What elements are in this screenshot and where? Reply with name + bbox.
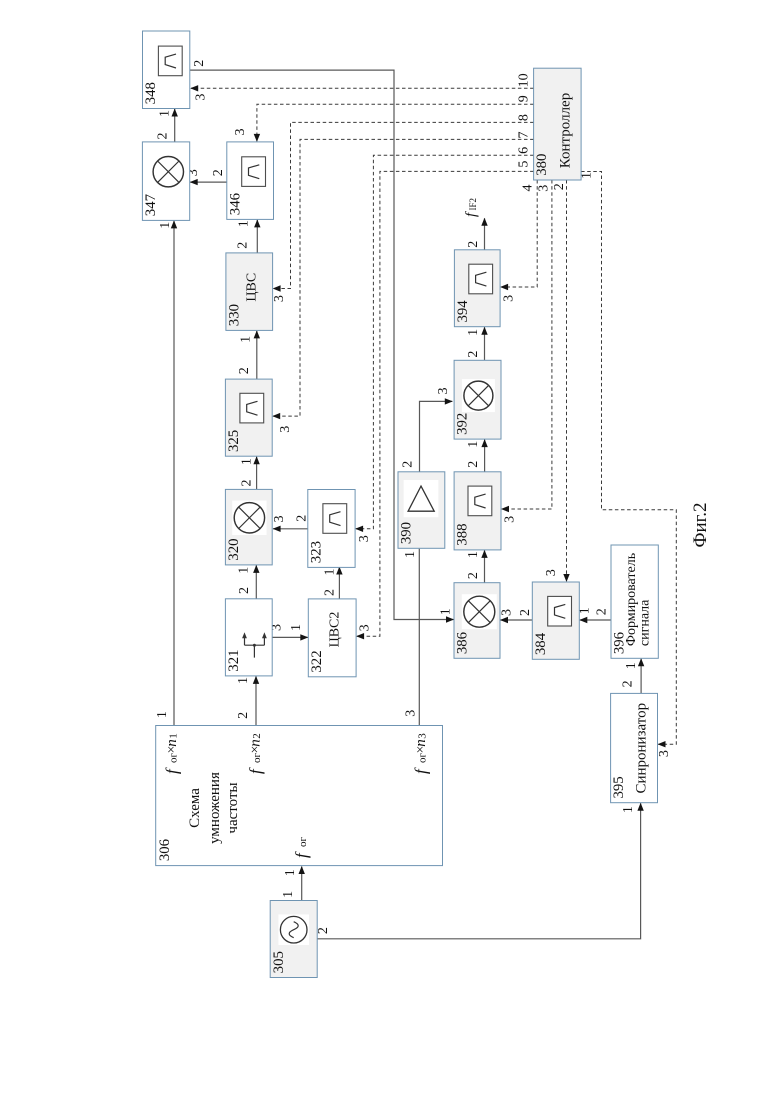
wire 325 pin2 to 330 pin1 <box>254 330 260 379</box>
svg-text:2: 2 <box>235 242 250 249</box>
svg-text:1: 1 <box>580 172 595 179</box>
svg-text:3: 3 <box>436 388 451 395</box>
wire 306 pin1 to 347 pin1 <box>171 220 177 725</box>
wire 306 pin3 to 390 pin1 <box>418 549 420 726</box>
svg-text:2: 2 <box>466 351 481 358</box>
svg-text:1: 1 <box>281 891 296 898</box>
svg-text:2: 2 <box>240 480 255 487</box>
block 348 bandpass filter <box>143 31 190 109</box>
svg-text:3: 3 <box>233 129 248 136</box>
block 320 mixer <box>225 489 272 565</box>
svg-text:2: 2 <box>466 572 481 579</box>
block 388 bandpass filter <box>454 472 501 550</box>
svg-text:2: 2 <box>316 927 331 934</box>
wire 320 pin2 to 325 pin1 <box>253 456 259 489</box>
svg-text:388: 388 <box>455 523 471 545</box>
svg-text:321: 321 <box>226 649 242 671</box>
svg-text:1: 1 <box>238 336 253 343</box>
pin label 384.3 <box>544 569 559 576</box>
svg-text:330: 330 <box>227 304 243 326</box>
svg-text:3: 3 <box>502 295 517 302</box>
wire 305 pin2 to 395 pin1 <box>317 803 644 939</box>
pin label 388.3 <box>502 516 517 523</box>
pin labels 325.2 / 330.1 <box>237 336 253 374</box>
pin labels 347.2 / 348.1 <box>155 110 172 140</box>
svg-text:3: 3 <box>417 733 429 739</box>
svg-text:ЦВС2: ЦВС2 <box>328 612 343 648</box>
pin labels 323.2 / 320.3 <box>272 515 310 523</box>
svg-text:386: 386 <box>455 632 471 654</box>
svg-text:2: 2 <box>552 183 567 190</box>
svg-text:1: 1 <box>236 567 251 574</box>
svg-text:2: 2 <box>466 461 481 468</box>
pin labels 305.2 / 395.1 <box>316 806 636 934</box>
pin labels 305.1 / 306.1 <box>281 869 298 898</box>
pin labels 392.2 / 394.1 <box>466 329 481 358</box>
controller 380 bottom pin labels 4,3,2 and right pin label 1 <box>521 172 595 192</box>
svg-text:3: 3 <box>536 185 551 192</box>
block 380 controller (Контроллер) <box>534 68 582 180</box>
controller 380 left pin labels 10-5 <box>516 73 531 167</box>
wire 388 pin2 to 392 pin1 <box>481 439 487 472</box>
pin labels 321.2 / 320.1 <box>236 567 252 594</box>
svg-text:3: 3 <box>657 750 672 757</box>
wire 390 pin2 to 392 pin3 <box>420 398 453 472</box>
svg-text:умножения: умножения <box>207 772 223 844</box>
svg-text:1: 1 <box>283 869 298 876</box>
svg-text:320: 320 <box>226 538 242 560</box>
wire 395 pin2 to 396 pin1 <box>638 658 644 693</box>
dashed wire 380 pin3 to 388 pin3 <box>501 180 552 512</box>
pin labels 384.2 / 386.3 <box>500 609 534 616</box>
pin labels 396.2 / 384.1 <box>578 607 610 615</box>
svg-text:3: 3 <box>500 609 515 616</box>
svg-text:396: 396 <box>612 632 628 654</box>
wire 305 pin1 to 306 input <box>299 866 305 901</box>
block 322 DDS2 (ЦВС2) <box>308 599 356 677</box>
svg-text:6: 6 <box>516 147 531 154</box>
svg-text:380: 380 <box>534 154 550 176</box>
pin labels 390.2 / 392.3 <box>401 388 451 468</box>
pin labels 386.2 / 388.1 <box>466 551 481 579</box>
pin labels 306.3 / 390.1 <box>403 551 419 717</box>
block 395 synchronizer (Синронизатор) <box>611 693 658 802</box>
svg-text:Контроллер: Контроллер <box>558 93 574 168</box>
wire 330 pin2 to 346 pin1 <box>254 219 260 253</box>
wire 392 pin2 to 394 pin1 <box>481 327 487 361</box>
wire 321 pin3 to 322 pin1 <box>272 634 308 640</box>
dashed wire 380 pin9 to 346 pin3 <box>254 104 534 142</box>
block 346 bandpass filter <box>227 142 274 220</box>
svg-text:2: 2 <box>251 733 263 739</box>
label fIF2 <box>463 198 479 217</box>
svg-text:частоты: частоты <box>225 782 241 833</box>
pin label 395.3 <box>657 750 672 757</box>
block 384 bandpass filter <box>532 582 579 659</box>
wire 384 pin2 to 386 pin3 <box>500 617 532 623</box>
dashed wire 380 pin4 to 394 pin3 <box>500 180 537 290</box>
svg-text:2: 2 <box>518 609 533 616</box>
pin label 394.3 <box>502 295 517 302</box>
svg-text:3: 3 <box>272 295 287 302</box>
svg-text:346: 346 <box>227 193 243 215</box>
svg-text:2: 2 <box>595 608 610 615</box>
dashed wire 380 pin6 to 323 pin3 <box>355 155 533 532</box>
svg-text:384: 384 <box>533 632 549 655</box>
pin labels 322.2 / 323.1 <box>322 569 337 597</box>
wire 323 pin2 to 320 pin3 <box>273 526 308 532</box>
dashed wire 380 pin2 to 384 pin3 <box>563 180 569 582</box>
svg-text:2: 2 <box>294 515 309 522</box>
svg-text:2: 2 <box>401 461 416 468</box>
svg-text:1: 1 <box>466 329 481 336</box>
svg-text:1: 1 <box>236 677 251 684</box>
pin labels 346.2 / 347.3 <box>186 169 226 176</box>
labels f_og x n inside 306 <box>162 733 430 858</box>
pin labels 348.2 / 386.1 <box>192 60 453 616</box>
svg-text:10: 10 <box>516 73 531 87</box>
block 392 mixer <box>454 360 501 439</box>
svg-text:392: 392 <box>455 413 471 435</box>
svg-text:2: 2 <box>237 587 252 594</box>
svg-text:1: 1 <box>624 662 639 669</box>
block 394 bandpass filter <box>454 250 500 327</box>
svg-text:1: 1 <box>403 551 418 558</box>
svg-text:348: 348 <box>143 82 159 104</box>
svg-text:395: 395 <box>611 776 627 798</box>
svg-text:3: 3 <box>358 624 373 631</box>
svg-text:2: 2 <box>192 60 207 67</box>
svg-text:2: 2 <box>236 712 251 719</box>
block 325 bandpass filter <box>225 379 272 456</box>
pin labels 306.1 / 347.1 <box>155 222 173 718</box>
pin label 348.3 <box>193 94 208 101</box>
svg-text:IF2: IF2 <box>468 198 478 211</box>
svg-text:1: 1 <box>236 220 251 227</box>
svg-text:1: 1 <box>289 624 304 631</box>
pin labels 320.2 / 325.1 <box>240 458 255 486</box>
wire 322 pin2 to 323 pin1 <box>336 567 342 599</box>
pin label 322.3 <box>358 624 373 631</box>
pin label 346.3 <box>233 129 248 136</box>
svg-text:сигнала: сигнала <box>637 599 652 646</box>
svg-text:9: 9 <box>516 95 531 102</box>
svg-text:347: 347 <box>143 194 159 216</box>
svg-text:ЦВС: ЦВС <box>245 273 260 302</box>
block 305 reference oscillator <box>270 901 317 978</box>
dashed wire 380 pin8 to 330 pin3 <box>273 122 534 291</box>
svg-text:3: 3 <box>193 94 208 101</box>
pin labels 321.3 / 322.1 <box>270 624 304 631</box>
svg-text:2: 2 <box>237 367 252 374</box>
svg-text:Фиг.2: Фиг.2 <box>690 502 711 547</box>
svg-text:3: 3 <box>278 426 293 433</box>
dashed wire 380 pin1 to 395 pin3 <box>581 172 676 748</box>
dashed wire 380 pin7 to 325 pin3 <box>272 139 533 419</box>
wire 386 pin2 to 388 pin1 <box>481 550 487 583</box>
svg-text:3: 3 <box>502 516 517 523</box>
dashed wire 380 pin10 to 348 pin3 <box>190 85 533 91</box>
svg-text:n: n <box>248 739 264 747</box>
wire 348 pin2 to 386 pin1 (long feedback) <box>190 70 454 623</box>
svg-text:322: 322 <box>309 650 325 672</box>
block 321 switch <box>225 599 272 676</box>
pin label 325.3 <box>278 426 293 433</box>
wire 306 pin2 to 321 pin1 <box>253 676 259 726</box>
svg-text:8: 8 <box>516 114 531 121</box>
svg-text:7: 7 <box>516 132 531 139</box>
pin label 323.3 <box>357 535 372 542</box>
svg-text:n: n <box>164 739 180 747</box>
svg-text:2: 2 <box>155 133 170 140</box>
wire 347 pin2 to 348 pin1 <box>172 109 178 142</box>
block 330 DDS (ЦВС) <box>226 253 273 331</box>
figure caption Фиг.2 <box>690 502 711 547</box>
svg-text:Схема: Схема <box>187 788 203 828</box>
block 306 frequency multiplier (Схема умножения частоты) <box>156 726 443 866</box>
block 386 mixer <box>454 583 500 659</box>
block 347 mixer <box>142 142 189 221</box>
svg-text:305: 305 <box>271 951 287 973</box>
pin labels 395.2 / 396.1 <box>621 662 639 687</box>
dashed wire 380 pin5 to 322 pin3 <box>356 171 533 639</box>
svg-text:390: 390 <box>399 522 415 544</box>
pin labels 388.2 / 392.1 <box>466 441 481 468</box>
wire 396 pin2 to 384 pin1 <box>579 617 611 623</box>
svg-text:1: 1 <box>158 222 173 229</box>
svg-text:1: 1 <box>621 806 636 813</box>
wire 346 pin2 to 347 pin3 <box>190 179 227 185</box>
svg-text:Синронизатор: Синронизатор <box>634 703 650 794</box>
pin label 394.2 <box>466 241 481 248</box>
svg-text:3: 3 <box>357 535 372 542</box>
svg-text:2: 2 <box>466 241 481 248</box>
svg-text:325: 325 <box>226 430 242 452</box>
svg-text:2: 2 <box>211 169 226 176</box>
svg-text:2: 2 <box>621 680 636 687</box>
pin labels 306.2 / 321.1 <box>236 677 251 719</box>
svg-text:1: 1 <box>167 733 179 739</box>
svg-text:3: 3 <box>544 569 559 576</box>
pin labels 330.2 / 346.1 <box>235 220 251 249</box>
pin label 330.3 <box>272 295 287 302</box>
svg-text:1: 1 <box>466 441 481 448</box>
svg-text:n: n <box>413 739 429 747</box>
svg-text:3: 3 <box>404 710 419 717</box>
svg-text:1: 1 <box>466 551 481 558</box>
svg-text:1: 1 <box>322 569 337 576</box>
svg-text:1: 1 <box>439 608 454 615</box>
wire 321 pin2 to 320 pin1 <box>253 565 259 599</box>
wire 394 pin2 output fIF2 <box>481 218 487 250</box>
svg-text:323: 323 <box>308 541 324 563</box>
svg-text:ог: ог <box>297 837 309 848</box>
svg-text:1: 1 <box>240 458 255 465</box>
svg-text:4: 4 <box>521 185 536 192</box>
svg-text:306: 306 <box>157 839 173 861</box>
svg-text:2: 2 <box>322 589 337 596</box>
block 390 amplifier <box>398 472 445 549</box>
svg-text:1: 1 <box>155 711 170 718</box>
svg-text:394: 394 <box>455 300 471 323</box>
block 396 signal former (Формирователь сигнала) <box>611 545 658 658</box>
svg-text:1: 1 <box>157 110 172 117</box>
svg-text:5: 5 <box>516 161 531 168</box>
svg-text:3: 3 <box>272 516 287 523</box>
block 323 bandpass filter <box>308 490 355 568</box>
